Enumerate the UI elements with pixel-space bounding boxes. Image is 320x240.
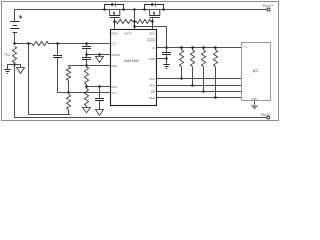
wire C2 bottom	[86, 60, 88, 66]
node DCI/C3	[98, 85, 101, 88]
svg-text:GDD: GDD	[111, 31, 119, 35]
svg-text:AGND: AGND	[112, 53, 122, 57]
resistor R6	[84, 89, 88, 107]
wire BATT to VL rail	[135, 27, 167, 48]
svg-text:SCL: SCL	[150, 77, 156, 81]
capacitor C4	[162, 53, 171, 55]
resistor R5	[84, 67, 88, 85]
node rail Q1 right	[122, 8, 125, 11]
wire BATT column	[134, 10, 136, 30]
Q1 body arrow	[113, 13, 115, 16]
terminal PACK+	[267, 8, 270, 11]
battery plus label	[19, 15, 23, 19]
wire battery bottom	[14, 33, 16, 44]
wire CS line right	[49, 43, 111, 45]
node VL R8	[191, 46, 194, 49]
ground triangle at RCS node	[17, 68, 25, 74]
capacitor C2a	[82, 47, 91, 49]
node battery/CS	[13, 42, 16, 45]
svg-text:BATT: BATT	[125, 31, 133, 35]
node GND/C4	[165, 57, 168, 60]
resistor R8 (pullup)	[190, 50, 194, 67]
wire pullup drop 3	[203, 67, 205, 92]
svg-text:CCI: CCI	[112, 91, 117, 95]
resistor R4	[66, 95, 70, 110]
wire C1 top	[57, 44, 59, 55]
transistor Q1 (P-FET)	[105, 5, 124, 18]
wire AGND line	[87, 54, 111, 56]
node DCI/R5	[85, 85, 88, 88]
wire GDC pin	[152, 22, 154, 30]
Q2 gate lead	[152, 18, 154, 22]
wire INT bus	[157, 91, 242, 93]
wire GDD pin	[114, 22, 116, 30]
wire C1 bottom / CCI line	[58, 58, 111, 93]
capacitor C3	[95, 99, 104, 101]
resistor R1	[32, 41, 49, 45]
svg-text:SDA: SDA	[149, 84, 155, 88]
svg-text:µC: µC	[253, 68, 259, 73]
border frame	[2, 2, 279, 121]
wire pullup drop 2	[192, 67, 194, 86]
svg-text:RCS: RCS	[5, 53, 11, 58]
svg-text:DCI: DCI	[112, 85, 117, 89]
junction dots	[13, 8, 217, 99]
wire DCI line	[87, 86, 111, 88]
wire VL rail	[157, 47, 242, 49]
chassis ground below uC	[251, 105, 259, 110]
wire GND pin stub	[157, 58, 167, 60]
wire C3 bottom	[99, 101, 101, 110]
wire SDA bus	[157, 85, 242, 87]
Q2 body arrow	[153, 13, 155, 16]
wire AGND triangle stub	[99, 55, 101, 57]
Q1 gate lead	[114, 18, 116, 22]
wire VL cap bottom	[166, 55, 168, 58]
wire C2a bottom	[86, 49, 88, 55]
wire CELL bus	[157, 97, 242, 99]
node rail BATT	[133, 8, 136, 11]
node bus R8	[191, 84, 194, 87]
node REF/C2	[85, 64, 88, 67]
wire C2a top	[86, 44, 88, 47]
node CS/C2a	[85, 42, 88, 45]
wire GND ground stem	[166, 59, 168, 64]
wire battery-neg to PACK- rail	[15, 63, 267, 118]
battery B1	[10, 22, 19, 33]
svg-text:SHDN: SHDN	[147, 39, 156, 43]
node VL/BATT	[165, 46, 168, 49]
svg-text:CELL: CELL	[149, 96, 157, 100]
uC box	[242, 43, 271, 101]
svg-text:PACK+: PACK+	[263, 4, 274, 8]
ground triangle below R6	[83, 108, 91, 113]
svg-text:GDC: GDC	[149, 31, 157, 35]
wire R2 to BATT column	[133, 21, 137, 23]
wire R4 to rail A	[68, 110, 70, 115]
wire C3 top	[99, 87, 101, 98]
wire R3 to CCI node	[68, 81, 70, 93]
svg-text:PACK−: PACK−	[261, 113, 272, 117]
wire uC ground stem	[254, 101, 256, 105]
svg-text:GND: GND	[251, 97, 257, 101]
IC U1 MAX1660 box	[111, 30, 157, 106]
diode D2	[151, 3, 155, 7]
node gate Q2	[151, 20, 154, 23]
node railA top	[27, 42, 30, 45]
node rail Q2 left	[143, 8, 146, 11]
node rail Q1 left	[103, 8, 106, 11]
wire C2 top	[86, 55, 88, 58]
wire REF elbow	[68, 66, 70, 67]
wire pullup drop 1	[181, 67, 183, 79]
node AGND/C2	[85, 53, 88, 56]
ground bars at RCS	[4, 70, 10, 74]
wire triangle stub	[15, 65, 21, 68]
wire VL cap top	[166, 48, 168, 53]
resistor RCS	[12, 47, 16, 63]
node RCS bottom	[13, 63, 16, 66]
svg-text:MAX1660: MAX1660	[124, 59, 139, 63]
wire CS line left	[15, 43, 33, 45]
resistor R7 (pullup)	[179, 50, 183, 67]
node BATT branch	[133, 25, 136, 28]
wire SCL bus	[157, 78, 242, 80]
node gate mid	[133, 20, 136, 23]
resistor R2 (gate Q1)	[116, 19, 133, 23]
ground bars at GND pin	[163, 65, 169, 69]
wire node to rail A	[29, 44, 71, 115]
capacitor C2	[82, 58, 91, 60]
node rail Q2 right	[162, 8, 165, 11]
wire pullup drop 4	[215, 67, 217, 98]
wire R6 to ground triangle	[86, 106, 88, 108]
node gate Q1	[113, 20, 116, 23]
node bus R10	[214, 96, 217, 99]
wire gate node to R2	[115, 21, 117, 23]
svg-text:INT: INT	[151, 90, 156, 94]
node VL R7	[180, 46, 183, 49]
ground triangle below C3	[96, 110, 104, 116]
resistor R9 (pullup)	[201, 50, 205, 67]
ground triangle on AGND line	[96, 57, 104, 63]
diode D1	[111, 3, 115, 7]
wire top rail PACK+	[15, 10, 268, 22]
node AGND triangle	[98, 53, 101, 56]
node bus R7	[180, 77, 183, 80]
transistor Q2 (P-FET)	[145, 5, 164, 18]
wire ground-left stub	[8, 65, 15, 70]
resistor R3	[66, 67, 70, 81]
svg-text:VL: VL	[152, 46, 156, 50]
node VL R10	[214, 46, 217, 49]
wire R11 to gate node	[151, 21, 153, 23]
svg-text:CS: CS	[112, 41, 116, 45]
node VL R9	[202, 46, 205, 49]
terminal PACK-	[267, 116, 270, 119]
resistor R10 (pullup)	[213, 50, 217, 67]
resistor R11 (gate Q2)	[136, 19, 150, 23]
capacitor C1	[53, 56, 62, 58]
svg-text:REF: REF	[112, 64, 118, 68]
node C1 top	[56, 42, 59, 45]
wire REF line	[69, 65, 111, 67]
node bus R9	[202, 90, 205, 93]
svg-text:GND: GND	[149, 57, 157, 61]
wire R5 to DCI	[86, 85, 88, 89]
node CCI junction	[67, 91, 70, 94]
